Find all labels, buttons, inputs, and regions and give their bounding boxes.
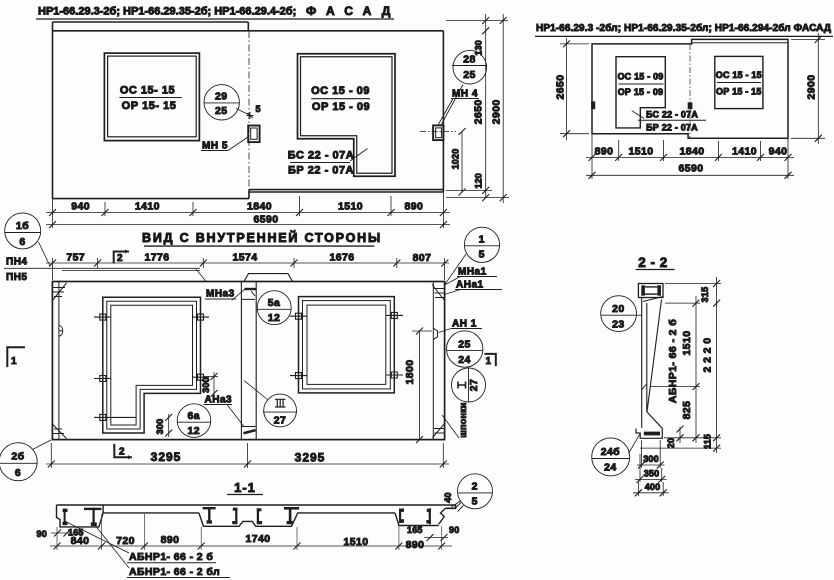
svg-text:300: 300 [201, 377, 211, 393]
svg-text:НР1-66.29.3-2б; НР1-66.29.35-2: НР1-66.29.3-2б; НР1-66.29.35-2б; НР1-66.… [38, 6, 296, 18]
svg-text:27: 27 [274, 415, 286, 427]
svg-text:1776: 1776 [145, 252, 170, 264]
svg-text:6а: 6а [187, 410, 199, 422]
svg-text:1510: 1510 [629, 146, 654, 158]
svg-text:1740: 1740 [246, 533, 271, 545]
svg-text:АНа1: АНа1 [456, 280, 484, 291]
svg-text:2 2 2 0: 2 2 2 0 [702, 338, 714, 373]
svg-text:940: 940 [71, 201, 90, 213]
svg-text:АНа3: АНа3 [205, 395, 233, 406]
svg-text:165: 165 [68, 528, 84, 538]
svg-text:27: 27 [468, 379, 480, 391]
svg-text:2900: 2900 [491, 99, 503, 124]
svg-text:АБНР1- 66 - 2 бл: АБНР1- 66 - 2 бл [129, 566, 220, 578]
svg-text:1676: 1676 [330, 252, 355, 264]
svg-text:6590: 6590 [254, 214, 279, 226]
svg-text:1840: 1840 [680, 146, 705, 158]
svg-text:БР 22 - 07А: БР 22 - 07А [646, 123, 698, 133]
svg-text:890: 890 [161, 534, 180, 546]
svg-text:2650: 2650 [555, 75, 567, 100]
svg-text:1020: 1020 [451, 149, 461, 170]
svg-text:1840: 1840 [247, 201, 272, 213]
svg-text:2 - 2: 2 - 2 [638, 255, 668, 270]
svg-text:20: 20 [612, 303, 624, 315]
svg-text:6590: 6590 [679, 163, 704, 175]
svg-text:890: 890 [406, 539, 425, 551]
svg-text:2: 2 [117, 253, 123, 264]
svg-text:120: 120 [474, 173, 484, 189]
svg-text:ПН5: ПН5 [6, 272, 27, 283]
svg-text:90: 90 [37, 529, 47, 539]
svg-text:АБНР1- 66 - 2 б: АБНР1- 66 - 2 б [129, 551, 213, 563]
svg-text:БР 22 - 07А: БР 22 - 07А [288, 165, 354, 177]
svg-text:350: 350 [644, 469, 660, 479]
svg-text:1510: 1510 [681, 331, 693, 356]
svg-text:3295: 3295 [151, 450, 182, 464]
svg-text:1574: 1574 [233, 252, 258, 264]
svg-text:130: 130 [474, 40, 484, 56]
svg-text:ОР 15 - 15: ОР 15 - 15 [716, 87, 762, 97]
svg-text:МНа1: МНа1 [458, 267, 487, 278]
svg-text:1510: 1510 [344, 536, 369, 548]
svg-text:25: 25 [458, 339, 470, 351]
svg-text:5: 5 [479, 249, 485, 261]
svg-text:6: 6 [15, 467, 21, 479]
svg-text:940: 940 [769, 146, 788, 158]
svg-text:БС 22 - 07А: БС 22 - 07А [646, 110, 698, 120]
svg-text:757: 757 [66, 252, 85, 264]
svg-text:БС 22 - 07А: БС 22 - 07А [288, 150, 354, 162]
svg-text:2: 2 [119, 447, 125, 458]
svg-text:315: 315 [700, 287, 710, 303]
svg-text:5а: 5а [268, 297, 280, 309]
svg-text:720: 720 [116, 535, 135, 547]
svg-text:ОС 15 - 09: ОС 15 - 09 [311, 85, 370, 97]
svg-text:300: 300 [643, 454, 659, 464]
svg-text:1: 1 [479, 234, 485, 246]
svg-text:23: 23 [612, 319, 624, 331]
svg-text:1б: 1б [16, 220, 29, 232]
svg-text:5: 5 [256, 104, 261, 114]
svg-text:2650: 2650 [473, 99, 485, 124]
svg-text:825: 825 [681, 401, 693, 420]
svg-text:1800: 1800 [404, 360, 416, 385]
svg-text:1: 1 [486, 356, 492, 367]
svg-text:165: 165 [407, 525, 423, 535]
svg-text:29: 29 [215, 91, 227, 103]
svg-text:25: 25 [215, 105, 227, 117]
svg-text:115: 115 [703, 434, 713, 449]
svg-text:1410: 1410 [135, 201, 160, 213]
svg-text:ОР 15 - 09: ОР 15 - 09 [312, 101, 370, 113]
svg-text:24б: 24б [601, 446, 620, 458]
svg-text:ОС 15- 15: ОС 15- 15 [120, 85, 175, 97]
svg-text:ВИД С ВНУТРЕННЕЙ СТОРОНЫ: ВИД С ВНУТРЕННЕЙ СТОРОНЫ [142, 230, 382, 245]
svg-text:40: 40 [443, 492, 453, 502]
svg-text:6: 6 [19, 236, 25, 248]
svg-text:1510: 1510 [338, 201, 363, 213]
svg-text:МН 5: МН 5 [202, 141, 228, 152]
svg-text:12: 12 [187, 425, 199, 437]
svg-text:1410: 1410 [732, 146, 757, 158]
svg-text:1: 1 [11, 356, 17, 367]
svg-text:МНа3: МНа3 [206, 289, 235, 300]
svg-text:АН 1: АН 1 [452, 319, 477, 330]
svg-text:90: 90 [449, 525, 459, 535]
svg-text:АБНР1- 66 - 2 б: АБНР1- 66 - 2 б [667, 319, 679, 403]
svg-text:2: 2 [472, 481, 478, 493]
svg-text:24: 24 [458, 354, 470, 366]
svg-text:ПН4: ПН4 [6, 257, 27, 268]
svg-text:400: 400 [645, 482, 661, 492]
svg-text:НР1-66.29.3 -2бл; НР1-66.29.35: НР1-66.29.3 -2бл; НР1-66.29.35-2бл; НР1-… [536, 22, 831, 34]
svg-text:20: 20 [666, 438, 676, 448]
svg-text:25: 25 [463, 69, 475, 81]
svg-text:300: 300 [155, 419, 165, 435]
svg-text:ОР 15 - 09: ОР 15 - 09 [618, 87, 664, 97]
svg-text:шпонки: шпонки [458, 402, 468, 437]
svg-text:12: 12 [268, 312, 280, 324]
svg-text:890: 890 [595, 146, 614, 158]
svg-text:ФАСАД: ФАСАД [306, 4, 400, 18]
svg-text:24: 24 [604, 462, 616, 474]
svg-text:1-1: 1-1 [234, 480, 256, 495]
svg-text:5: 5 [472, 496, 478, 508]
svg-text:807: 807 [413, 252, 432, 264]
svg-text:2б: 2б [11, 451, 24, 463]
svg-text:890: 890 [405, 201, 424, 213]
svg-text:ОР 15- 15: ОР 15- 15 [122, 100, 177, 112]
svg-text:2900: 2900 [806, 75, 818, 100]
svg-text:ОС 15 - 15: ОС 15 - 15 [716, 70, 762, 80]
svg-text:ОС 15 - 09: ОС 15 - 09 [617, 72, 663, 82]
svg-text:3295: 3295 [295, 451, 326, 465]
